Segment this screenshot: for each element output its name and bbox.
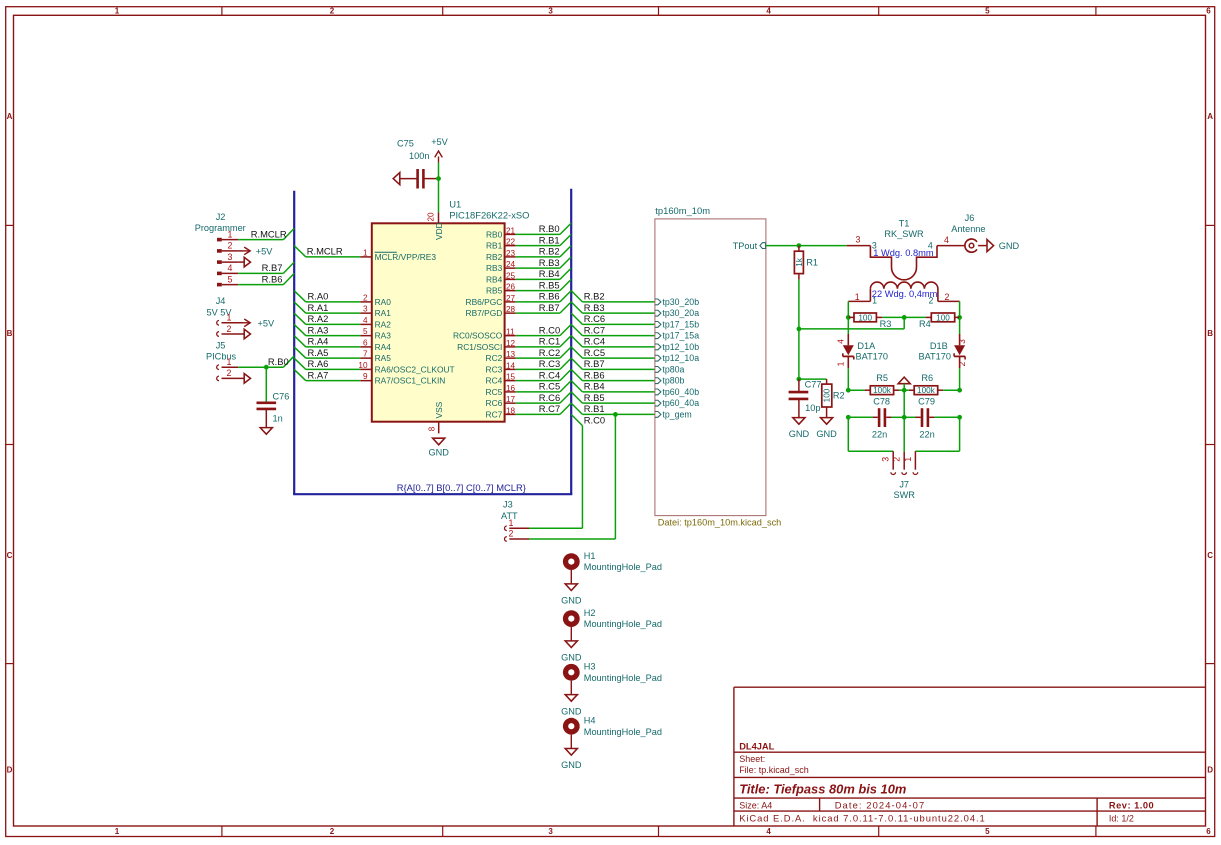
svg-text:27: 27	[506, 294, 516, 303]
power symbol +5V at J4 pin1	[244, 319, 251, 327]
svg-text:MountingHole_Pad: MountingHole_Pad	[584, 619, 662, 629]
connector J3 reference	[503, 500, 513, 510]
svg-text:22 Wdg. 0,4mm: 22 Wdg. 0,4mm	[872, 289, 938, 299]
GND net label at C77	[789, 429, 810, 439]
svg-text:R.C3: R.C3	[539, 358, 560, 369]
U1 pin 13 RC2	[486, 350, 516, 363]
svg-text:22: 22	[506, 238, 516, 247]
svg-text:1: 1	[855, 292, 860, 302]
wire R.B6 from U1	[516, 291, 572, 302]
label R.C7 (sheet side)	[584, 324, 605, 335]
sheet pin tp_gem	[655, 409, 692, 419]
svg-text:C75: C75	[397, 139, 414, 149]
wire R.C4 from U1	[516, 369, 572, 380]
wire R.B1 to sheet pin tp_gem	[571, 403, 655, 414]
svg-text:R.B2: R.B2	[539, 246, 560, 257]
svg-text:2: 2	[957, 361, 967, 366]
U1 pin 21 RB0	[486, 226, 516, 239]
resistor R1 ref	[806, 258, 818, 268]
H1 value MountingHole_Pad	[584, 562, 662, 572]
label R.B4	[539, 268, 560, 279]
capacitor C79 value 22n	[919, 429, 934, 439]
wire R.B7 from U1	[516, 302, 572, 313]
svg-text:17: 17	[506, 395, 516, 404]
svg-text:R.B4: R.B4	[539, 268, 560, 279]
svg-text:R.C6: R.C6	[584, 313, 605, 324]
svg-text:2: 2	[945, 292, 950, 302]
svg-text:tp17_15a: tp17_15a	[662, 331, 699, 341]
svg-text:100k: 100k	[873, 386, 892, 395]
svg-text:R.B3: R.B3	[539, 257, 560, 268]
label R.A3	[308, 324, 329, 335]
sheet pin tp80a	[655, 364, 685, 374]
wire R.A5 to U1	[294, 347, 360, 358]
svg-text:R.B7: R.B7	[262, 262, 283, 273]
ground symbol at J6	[987, 240, 994, 252]
svg-text:RC5: RC5	[486, 387, 503, 397]
capacitor C75 value 100n	[409, 151, 429, 161]
sheet name tp160m_10m	[655, 205, 710, 216]
svg-text:D1B: D1B	[930, 341, 948, 351]
junction right R4	[957, 315, 962, 320]
svg-text:RC4: RC4	[486, 376, 503, 386]
svg-text:R.B1: R.B1	[584, 403, 605, 414]
resistor R1	[794, 246, 803, 280]
svg-text:Datei: tp160m_10m.kicad_sch: Datei: tp160m_10m.kicad_sch	[658, 518, 782, 528]
svg-text:GND: GND	[561, 760, 582, 770]
svg-text:SWR: SWR	[893, 490, 915, 500]
GND net label at H3	[561, 706, 582, 716]
label R.MCLR at J2	[251, 229, 287, 240]
U1 pin 26 RB5	[486, 283, 516, 296]
H3 reference	[584, 662, 596, 672]
svg-text:R.B5: R.B5	[584, 392, 605, 403]
J5 pin numbers	[227, 357, 232, 378]
title block id	[1109, 813, 1134, 823]
wire R.B5 from U1	[516, 279, 572, 290]
label R.B6	[539, 291, 560, 302]
svg-text:R.B7: R.B7	[539, 302, 560, 313]
J7 pin 1 number	[903, 457, 913, 462]
svg-text:18: 18	[506, 406, 516, 415]
capacitor C76 ref	[273, 391, 290, 401]
svg-text:RA2: RA2	[375, 319, 392, 329]
J2 pin numbers 1-5	[228, 229, 233, 284]
resistor R2	[822, 379, 832, 418]
wire R.B2 to sheet pin tp30_20b	[571, 291, 655, 302]
connector J6 reference	[965, 213, 975, 223]
label R.B6 (sheet side)	[584, 369, 605, 380]
svg-text:R6: R6	[921, 373, 933, 383]
junction at C75 / VDD	[436, 176, 441, 181]
U1 pin 25 RB4	[486, 271, 516, 284]
svg-text:R.A4: R.A4	[308, 336, 329, 347]
svg-text:100: 100	[858, 313, 872, 322]
connector J4 reference	[216, 296, 226, 306]
capacitor C76	[257, 403, 277, 428]
U1 pin 17 RC6	[486, 395, 516, 408]
svg-text:+5V: +5V	[258, 318, 275, 328]
wire R.A3 to U1	[294, 324, 360, 335]
svg-text:R.A6: R.A6	[308, 358, 329, 369]
svg-text:H2: H2	[584, 608, 596, 618]
svg-text:1: 1	[227, 357, 232, 367]
connector J5 value PICbus	[206, 352, 237, 362]
U1 pin 9 RA7/OSC1_CLKIN	[360, 372, 445, 386]
wire R.B7 to sheet pin tp80a	[571, 358, 655, 369]
junction on tp_gem wire	[613, 412, 618, 417]
svg-text:J2: J2	[216, 212, 226, 222]
svg-text:C: C	[7, 551, 13, 560]
wire +5V to U1 VDD	[438, 163, 440, 213]
svg-text:R.MCLR: R.MCLR	[251, 229, 287, 240]
U1 pin 5 RA3	[360, 327, 391, 341]
ground symbol at H3	[565, 695, 577, 702]
svg-text:Sheet:: Sheet:	[739, 754, 765, 764]
label R.B6 at J2	[262, 273, 283, 284]
svg-text:RC0/SOSCO: RC0/SOSCO	[453, 331, 503, 341]
svg-text:MountingHole_Pad: MountingHole_Pad	[584, 562, 662, 572]
svg-text:24: 24	[506, 260, 516, 269]
svg-text:RB1: RB1	[486, 241, 503, 251]
wire J2 pin1 R.MCLR	[238, 228, 294, 239]
svg-text:tp30_20b: tp30_20b	[662, 297, 699, 307]
label R.C6 (sheet side)	[584, 313, 605, 324]
capacitor C77	[789, 379, 809, 418]
resistor R3 ref	[880, 319, 892, 329]
label R.B1 (sheet side)	[584, 403, 605, 414]
svg-text:RB4: RB4	[486, 274, 503, 284]
svg-text:RC7: RC7	[486, 409, 503, 419]
svg-text:10p: 10p	[805, 403, 820, 413]
svg-text:1n: 1n	[273, 413, 283, 423]
label R.B3 (sheet side)	[584, 302, 605, 313]
power symbol +5V at C75	[435, 151, 443, 163]
svg-text:16: 16	[506, 384, 516, 393]
sheet pin tp12_10b	[655, 342, 699, 352]
capacitor C78	[848, 408, 904, 427]
D1A ref	[857, 341, 876, 351]
svg-text:11: 11	[506, 328, 515, 337]
svg-text:4: 4	[766, 827, 771, 836]
svg-text:C78: C78	[873, 397, 890, 407]
svg-text:J3: J3	[503, 500, 513, 510]
svg-text:8: 8	[427, 426, 436, 431]
label R.B2 (sheet side)	[584, 291, 605, 302]
U1 pin 7 RA5	[360, 350, 391, 364]
title block sheet line	[739, 754, 765, 764]
label R.A4	[308, 336, 329, 347]
ground symbol at C76	[260, 428, 272, 435]
U1 pin 24 RB3	[486, 260, 516, 273]
svg-text:RA0: RA0	[375, 297, 392, 307]
svg-text:+5V: +5V	[431, 137, 448, 147]
wire R.C0 to J3 pin 1	[529, 414, 582, 528]
label R.A1	[308, 302, 329, 313]
svg-text:1: 1	[363, 248, 368, 257]
H3 value MountingHole_Pad	[584, 673, 662, 683]
transformer T1 value RK_SWR	[884, 229, 924, 239]
svg-text:1: 1	[115, 6, 120, 15]
sheet pin tp17_15a	[655, 331, 699, 341]
T1 pin 1 name	[872, 296, 877, 306]
svg-text:Rev: 1.00: Rev: 1.00	[1109, 800, 1154, 810]
title block frame	[734, 687, 1206, 826]
svg-text:10: 10	[358, 361, 368, 370]
svg-text:RB5: RB5	[486, 286, 503, 296]
svg-text:R.C4: R.C4	[539, 369, 560, 380]
svg-text:3: 3	[548, 827, 553, 836]
+5V text at C75	[431, 137, 448, 147]
T1 pin 4 name	[928, 240, 933, 250]
capacitor C78 value 22n	[872, 429, 887, 439]
U1 pin 15 RC4	[486, 373, 516, 386]
GND net label at R2	[816, 429, 837, 439]
svg-text:RK_SWR: RK_SWR	[884, 229, 924, 239]
wire R.B3 from U1	[516, 257, 572, 268]
wire R3/R4 mid to R1 column	[799, 317, 904, 329]
label R.C5 (sheet side)	[584, 347, 605, 358]
label R.MCLR at U1 pin1	[307, 245, 343, 256]
microcontroller U1 body	[372, 223, 505, 421]
ground symbol at C77	[793, 418, 805, 425]
svg-text:1 Wdg. 0.8mm: 1 Wdg. 0.8mm	[873, 248, 934, 258]
svg-text:RA6/OSC2_CLKOUT: RA6/OSC2_CLKOUT	[375, 364, 455, 374]
svg-text:R{A[0..7] B[0..7] C[0..7] MCLR: R{A[0..7] B[0..7] C[0..7] MCLR}	[397, 482, 526, 493]
label R.C3	[539, 358, 560, 369]
ground symbol at H2	[565, 641, 577, 648]
resistor R6	[904, 386, 959, 395]
frame row letters A-D	[7, 112, 1214, 775]
wire mid to R4	[904, 316, 925, 318]
svg-text:R.B6: R.B6	[262, 273, 283, 284]
resistor R4 ref	[919, 319, 931, 329]
svg-text:R.MCLR: R.MCLR	[307, 245, 343, 256]
svg-text:2: 2	[227, 324, 232, 334]
H2 value MountingHole_Pad	[584, 619, 662, 629]
title block size	[739, 800, 772, 810]
T1 pin 2 name	[929, 296, 934, 306]
svg-text:tp80a: tp80a	[662, 364, 684, 374]
wire R.A1 to U1	[294, 302, 360, 313]
wire R.C1 from U1	[516, 336, 572, 347]
wire R1 down	[798, 280, 800, 379]
ground symbol left of C75	[393, 173, 400, 185]
U1 pin 8 VSS	[427, 401, 444, 433]
svg-text:KiCad E.D.A. kicad 7.0.11-7.0: KiCad E.D.A. kicad 7.0.11-7.0.11-ubuntu2…	[739, 812, 986, 823]
D1B value BAT170	[918, 351, 951, 361]
svg-text:H1: H1	[584, 551, 596, 561]
label R.B4 (sheet side)	[584, 381, 605, 392]
svg-text:RB0: RB0	[486, 229, 503, 239]
svg-text:R.C7: R.C7	[539, 403, 560, 414]
T1 pin 4 number	[944, 235, 949, 245]
T1 secondary value 22 Wdg. 0,4mm	[872, 289, 938, 299]
wire T1 pin2 down	[959, 301, 961, 317]
label R.C1	[539, 336, 560, 347]
U1 reference	[449, 199, 461, 210]
resistor R3	[848, 313, 882, 322]
frame column tick marks	[222, 7, 1096, 837]
T1 pin 1 number	[855, 292, 860, 302]
svg-text:1: 1	[227, 313, 232, 323]
svg-text:+5V: +5V	[256, 246, 273, 256]
bus vertical left	[293, 191, 295, 494]
svg-text:13: 13	[506, 350, 516, 359]
svg-text:H4: H4	[584, 715, 596, 725]
svg-text:4: 4	[363, 316, 368, 325]
svg-text:2: 2	[363, 293, 368, 302]
svg-text:R.B3: R.B3	[584, 302, 605, 313]
svg-text:R.C5: R.C5	[539, 381, 560, 392]
svg-text:9: 9	[363, 372, 368, 381]
label R.B2	[539, 246, 560, 257]
svg-text:Antenne: Antenne	[951, 224, 985, 234]
wire R3 to mid	[882, 316, 904, 318]
label R.B7 at J2	[262, 262, 283, 273]
svg-text:25: 25	[506, 271, 516, 280]
svg-text:B: B	[7, 329, 13, 338]
svg-text:A: A	[7, 112, 13, 121]
svg-text:DL4JAL: DL4JAL	[739, 741, 774, 751]
U1 pin 18 RC7	[486, 406, 516, 419]
connector J5 pins	[217, 365, 245, 381]
U1 pin 23 RB2	[486, 249, 516, 262]
svg-text:RB7/PGD: RB7/PGD	[466, 308, 503, 318]
H4 value MountingHole_Pad	[584, 727, 662, 737]
wire tp_gem to J3 pin 2	[529, 414, 615, 539]
svg-text:B: B	[1207, 329, 1213, 338]
svg-text:tp30_20a: tp30_20a	[662, 308, 699, 318]
svg-text:4: 4	[766, 6, 771, 15]
svg-text:5: 5	[228, 274, 233, 284]
wire J5 to C76	[265, 367, 267, 402]
label R.B0	[539, 223, 560, 234]
svg-text:MountingHole_Pad: MountingHole_Pad	[584, 673, 662, 683]
connector J7 pins	[891, 451, 918, 474]
svg-text:100: 100	[823, 388, 832, 402]
svg-text:RB2: RB2	[486, 252, 503, 262]
svg-text:C76: C76	[273, 391, 290, 401]
svg-text:MCLR/VPP/RE3: MCLR/VPP/RE3	[375, 252, 437, 262]
svg-text:4: 4	[944, 235, 949, 245]
label R.C0	[539, 324, 560, 335]
svg-text:R5: R5	[876, 373, 888, 383]
title block title	[739, 781, 906, 796]
mounting hole H3	[563, 664, 580, 695]
svg-text:100k: 100k	[917, 386, 936, 395]
connector J2 pins	[217, 238, 238, 287]
svg-text:R.C5: R.C5	[584, 347, 605, 358]
wire J2 pin5 R.B6	[238, 273, 294, 284]
capacitor C76 value 1n	[273, 413, 283, 423]
svg-text:5: 5	[985, 827, 990, 836]
U1 pin 1 MCLR/VPP/RE3	[360, 248, 436, 262]
wire R.A6 to U1	[294, 358, 360, 369]
svg-text:RA7/OSC1_CLKIN: RA7/OSC1_CLKIN	[375, 376, 446, 386]
U1 pin 11 RC0/SOSCO	[453, 328, 516, 341]
label R.C6	[539, 392, 560, 403]
bus vertical right	[570, 189, 572, 494]
svg-text:2: 2	[227, 368, 232, 378]
svg-text:A: A	[1207, 112, 1213, 121]
D1A pin 4 number	[836, 339, 846, 344]
label R.C0 (J3 side)	[584, 414, 605, 425]
svg-text:2: 2	[509, 529, 514, 539]
svg-text:C77: C77	[805, 379, 822, 389]
junction R1/net mid	[797, 327, 802, 332]
U1 pin 27 RB6/PGC	[466, 294, 516, 307]
wire R.B3 to sheet pin tp30_20a	[571, 302, 655, 313]
svg-text:R.A1: R.A1	[308, 302, 329, 313]
T1 secondary winding	[848, 282, 959, 301]
svg-text:GND: GND	[561, 596, 582, 606]
label R.A0	[308, 291, 329, 302]
svg-text:D: D	[7, 766, 13, 775]
svg-text:J7: J7	[899, 479, 909, 489]
GND net label at H4	[561, 760, 582, 770]
label R.A7	[308, 369, 329, 380]
svg-text:R.A0: R.A0	[308, 291, 329, 302]
svg-text:23: 23	[506, 249, 516, 258]
T1 pin 3 number	[855, 235, 860, 245]
U1 pin 22 RB1	[486, 238, 516, 251]
svg-text:21: 21	[506, 226, 516, 235]
U1 pin 16 RC5	[486, 384, 516, 397]
wire R.C7 from U1	[516, 403, 572, 414]
connector J4 value 5V	[207, 307, 233, 317]
svg-text:PIC18F26K22-xSO: PIC18F26K22-xSO	[449, 209, 529, 220]
label R.B0 at J5	[268, 356, 289, 367]
U1 value PIC18F26K22-xSO	[449, 209, 529, 220]
connector J7 value SWR	[893, 490, 915, 500]
sheet pin tp60_40a	[655, 398, 699, 408]
U1 pin 14 RC3	[486, 361, 516, 374]
transformer T1 ref	[899, 219, 910, 229]
svg-text:T1: T1	[899, 219, 910, 229]
svg-text:tp12_10b: tp12_10b	[662, 342, 699, 352]
svg-text:R4: R4	[919, 319, 931, 329]
svg-text:28: 28	[506, 305, 516, 314]
H2 reference	[584, 608, 596, 618]
connector J2 reference	[216, 212, 226, 222]
svg-text:tp60_40b: tp60_40b	[662, 387, 699, 397]
svg-text:15: 15	[506, 373, 516, 382]
wire R.MCLR to U1 pin1	[294, 246, 360, 257]
sheet pin tp30_20b	[655, 297, 699, 307]
D1A pin 1 number	[836, 361, 846, 366]
U1 pin 20 VDD	[427, 212, 444, 240]
svg-text:tp60_40a: tp60_40a	[662, 398, 699, 408]
svg-text:RC3: RC3	[486, 364, 503, 374]
svg-text:R.B4: R.B4	[584, 381, 605, 392]
U1 pin 2 RA0	[360, 293, 391, 307]
svg-text:R.C7: R.C7	[584, 324, 605, 335]
wire R.B1 from U1	[516, 234, 572, 245]
connector J2 value Programmer	[195, 223, 246, 233]
wire R.B4 to sheet pin tp60_40b	[571, 381, 655, 392]
wire T1 pin1 down	[847, 301, 849, 317]
svg-text:R.C4: R.C4	[584, 336, 605, 347]
capacitor C77 ref	[805, 379, 822, 389]
svg-text:C: C	[1207, 551, 1213, 560]
wire R.A0 to U1	[294, 291, 360, 302]
svg-text:2: 2	[330, 6, 335, 15]
svg-text:File: tp.kicad_sch: File: tp.kicad_sch	[739, 765, 809, 775]
resistor R5	[848, 386, 904, 395]
title block rev	[1109, 800, 1154, 810]
svg-text:tp_gem: tp_gem	[662, 409, 691, 419]
